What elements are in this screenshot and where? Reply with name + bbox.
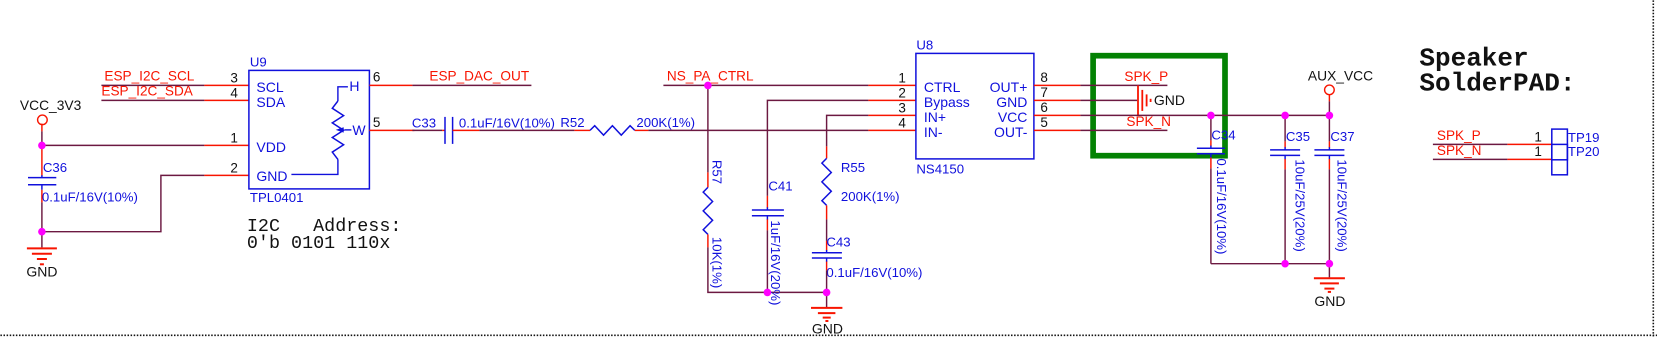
svg-text:5: 5 bbox=[373, 115, 381, 130]
test point TP19 bbox=[1534, 129, 1599, 160]
note Speaker SolderPAD bbox=[1419, 43, 1575, 98]
svg-text:0.1uF/16V(10%): 0.1uF/16V(10%) bbox=[42, 189, 138, 204]
svg-text:W: W bbox=[352, 122, 366, 138]
wire SPK_P to TP19 bbox=[1433, 143, 1552, 145]
svg-text:0.1uF/16V(10%): 0.1uF/16V(10%) bbox=[459, 115, 555, 130]
svg-text:OUT+: OUT+ bbox=[990, 79, 1028, 95]
svg-text:10K(1%): 10K(1%) bbox=[709, 237, 724, 288]
junction C34 / VCC rail bbox=[1207, 112, 1215, 120]
svg-text:1: 1 bbox=[1534, 144, 1542, 159]
svg-text:8: 8 bbox=[1040, 70, 1048, 85]
U9 pin 3 (SCL) bbox=[204, 70, 249, 85]
IC U8 NS4150 bbox=[916, 37, 1034, 176]
svg-text:IN+: IN+ bbox=[924, 109, 946, 125]
wire NS_PA_CTRL bbox=[663, 84, 868, 86]
svg-text:TPL0401: TPL0401 bbox=[250, 190, 304, 205]
svg-text:AUX_VCC: AUX_VCC bbox=[1308, 68, 1373, 83]
svg-text:C41: C41 bbox=[768, 178, 792, 193]
svg-text:CTRL: CTRL bbox=[924, 79, 961, 95]
svg-text:GND: GND bbox=[256, 168, 287, 184]
svg-text:7: 7 bbox=[1040, 85, 1048, 100]
svg-text:SCL: SCL bbox=[256, 79, 283, 95]
svg-text:VDD: VDD bbox=[256, 139, 286, 155]
svg-text:GND: GND bbox=[1314, 293, 1345, 309]
wire C33 to R52 bbox=[479, 129, 574, 131]
U9 pin 6 (H) bbox=[369, 69, 412, 85]
U9 pin 5 (W) bbox=[369, 115, 414, 130]
junction NS_PA_CTRL / R57 bbox=[704, 82, 712, 90]
svg-text:C34: C34 bbox=[1211, 127, 1235, 142]
svg-text:U8: U8 bbox=[916, 37, 933, 52]
svg-text:GND: GND bbox=[996, 94, 1027, 110]
svg-text:4: 4 bbox=[230, 85, 238, 100]
wire ESP_I2C_SCL bbox=[101, 84, 204, 86]
wire U8 Bypass to C41 bbox=[767, 100, 868, 195]
ground GND (C43) bbox=[811, 292, 843, 336]
svg-text:6: 6 bbox=[373, 69, 381, 84]
junction C43 / GND rail bbox=[823, 289, 831, 297]
resistor R52 200K(1%) bbox=[560, 115, 695, 135]
wire ESP_I2C_SDA bbox=[101, 99, 204, 101]
U8 pin 5 (OUT-) bbox=[1034, 115, 1081, 130]
resistor R57 10K(1%) bbox=[703, 160, 724, 288]
junction AUX_VCC / C37 / VCC rail bbox=[1326, 112, 1334, 120]
note I2C address bbox=[247, 216, 402, 254]
svg-text:200K(1%): 200K(1%) bbox=[636, 115, 695, 130]
junction C37 / GND rail bbox=[1326, 260, 1334, 268]
svg-text:ESP_I2C_SCL: ESP_I2C_SCL bbox=[104, 68, 194, 83]
svg-text:GND: GND bbox=[812, 321, 843, 337]
svg-text:IN-: IN- bbox=[924, 124, 943, 140]
wire VCC_3V3 to U9 VDD bbox=[42, 144, 205, 146]
wire SPK_N to TP20 bbox=[1433, 158, 1552, 160]
svg-text:C36: C36 bbox=[43, 160, 67, 175]
svg-text:ESP_I2C_SDA: ESP_I2C_SDA bbox=[101, 83, 193, 98]
wire R52 to U8 IN- bbox=[648, 129, 868, 131]
capacitor C43 0.1uF/16V(10%) bbox=[812, 234, 923, 280]
U9 pin 2 (GND) bbox=[204, 160, 249, 175]
power symbol GND (U8 pin 7) bbox=[1138, 85, 1185, 115]
svg-text:5: 5 bbox=[1040, 115, 1048, 130]
svg-text:R55: R55 bbox=[841, 160, 865, 175]
capacitor C35 10uF/25V(20%) bbox=[1270, 115, 1310, 263]
U9 pin 1 (VDD) bbox=[204, 130, 249, 145]
U8 pin 8 (OUT+) bbox=[1034, 70, 1081, 86]
svg-text:2: 2 bbox=[898, 85, 906, 100]
svg-text:NS4150: NS4150 bbox=[916, 161, 964, 176]
wire C43 to GND rail bbox=[826, 270, 828, 292]
svg-text:SDA: SDA bbox=[256, 94, 285, 110]
svg-text:VCC: VCC bbox=[998, 109, 1028, 125]
U8 pin 7 (GND) bbox=[1034, 85, 1081, 101]
svg-text:200K(1%): 200K(1%) bbox=[841, 189, 900, 204]
svg-text:4: 4 bbox=[898, 115, 906, 130]
test point TP20 bbox=[1534, 144, 1599, 175]
junction C41 / GND rail bbox=[764, 289, 772, 297]
svg-text:Bypass: Bypass bbox=[924, 94, 970, 110]
wire NS_PA_CTRL to R57 bbox=[707, 85, 709, 172]
wire U8 GND pin to GND symbol bbox=[1080, 99, 1137, 101]
wire OUT- / SPK_N bbox=[1080, 129, 1167, 131]
svg-text:VCC_3V3: VCC_3V3 bbox=[20, 98, 82, 113]
svg-text:C37: C37 bbox=[1330, 129, 1354, 144]
wire bottom GND rail (right) bbox=[1211, 263, 1330, 265]
svg-text:10uF/25V(20%): 10uF/25V(20%) bbox=[1334, 159, 1349, 251]
svg-text:GND: GND bbox=[1154, 92, 1185, 108]
capacitor C36 0.1uF/16V(10%) bbox=[28, 145, 138, 231]
svg-text:ESP_DAC_OUT: ESP_DAC_OUT bbox=[429, 68, 529, 83]
svg-text:C43: C43 bbox=[826, 234, 850, 249]
svg-text:SPK_N: SPK_N bbox=[1437, 143, 1482, 158]
svg-text:GND: GND bbox=[26, 263, 57, 279]
svg-text:1: 1 bbox=[898, 70, 906, 85]
svg-text:0.1uF/16V(10%): 0.1uF/16V(10%) bbox=[1214, 158, 1229, 254]
U8 pin 6 (VCC) bbox=[1034, 100, 1081, 116]
svg-text:SPK_P: SPK_P bbox=[1437, 128, 1481, 143]
ground GND (C36) bbox=[26, 232, 57, 280]
svg-text:TP19: TP19 bbox=[1568, 130, 1600, 145]
capacitor C41 1uF/16V(20%) bbox=[752, 178, 793, 305]
junction VCC_3V3 / C36 bbox=[38, 142, 46, 150]
wire C41 to GND rail bbox=[766, 230, 768, 292]
wire R57 to GND rail bbox=[708, 247, 827, 292]
U8 pin 4 (IN-) bbox=[868, 115, 916, 130]
svg-text:C33: C33 bbox=[412, 115, 436, 130]
svg-text:1: 1 bbox=[1534, 129, 1542, 144]
power symbol AUX_VCC bbox=[1308, 68, 1373, 115]
junction C36 / GND rail bbox=[38, 228, 46, 236]
wire VCC rail bbox=[1080, 114, 1329, 116]
ground GND (right rail) bbox=[1314, 264, 1346, 309]
power symbol VCC_3V3 bbox=[20, 98, 82, 145]
wire OUT+ / SPK_P bbox=[1080, 84, 1167, 86]
svg-text:3: 3 bbox=[898, 100, 906, 115]
U8 pin 1 (CTRL) bbox=[868, 70, 916, 85]
svg-text:C35: C35 bbox=[1286, 129, 1310, 144]
svg-text:6: 6 bbox=[1040, 100, 1048, 115]
capacitor C33 0.1uF/16V(10%) bbox=[412, 115, 555, 143]
svg-text:SolderPAD:: SolderPAD: bbox=[1419, 68, 1575, 98]
wire U9 GND return rail bbox=[42, 175, 205, 231]
U8 pin 2 (Bypass) bbox=[868, 85, 916, 100]
svg-text:U9: U9 bbox=[250, 54, 267, 69]
svg-text:TP20: TP20 bbox=[1568, 144, 1600, 159]
wire U8 IN+ to R55 bbox=[827, 115, 869, 146]
IC U9 TPL0401 bbox=[249, 54, 370, 205]
svg-text:R57: R57 bbox=[709, 160, 724, 184]
potentiometer element inside U9 bbox=[291, 78, 366, 174]
net label ESP_DAC_OUT bbox=[412, 68, 531, 85]
highlight box SPK nets (green) bbox=[1093, 56, 1225, 156]
svg-text:OUT-: OUT- bbox=[994, 124, 1028, 140]
svg-text:3: 3 bbox=[230, 70, 238, 85]
svg-text:10uF/25V(20%): 10uF/25V(20%) bbox=[1292, 159, 1307, 251]
resistor R55 200K(1%) bbox=[822, 146, 900, 219]
svg-text:SPK_P: SPK_P bbox=[1124, 69, 1168, 84]
capacitor C34 0.1uF/16V(10%) bbox=[1197, 115, 1236, 263]
svg-text:0.1uF/16V(10%): 0.1uF/16V(10%) bbox=[826, 265, 922, 280]
svg-text:NS_PA_CTRL: NS_PA_CTRL bbox=[667, 68, 754, 83]
svg-text:1: 1 bbox=[230, 130, 238, 145]
U8 pin 3 (IN+) bbox=[868, 100, 916, 115]
svg-text:H: H bbox=[349, 78, 359, 94]
svg-text:2: 2 bbox=[230, 160, 238, 175]
svg-text:0'b 0101 110x: 0'b 0101 110x bbox=[247, 233, 390, 254]
wire R55 to C43 bbox=[826, 219, 828, 241]
svg-text:SPK_N: SPK_N bbox=[1126, 114, 1171, 129]
junction C35 / VCC rail bbox=[1281, 112, 1289, 120]
capacitor C37 10uF/25V(20%) bbox=[1314, 115, 1354, 263]
U9 pin 4 (SDA) bbox=[204, 85, 249, 100]
junction C35 / GND rail bbox=[1281, 260, 1289, 268]
svg-text:R52: R52 bbox=[560, 115, 584, 130]
